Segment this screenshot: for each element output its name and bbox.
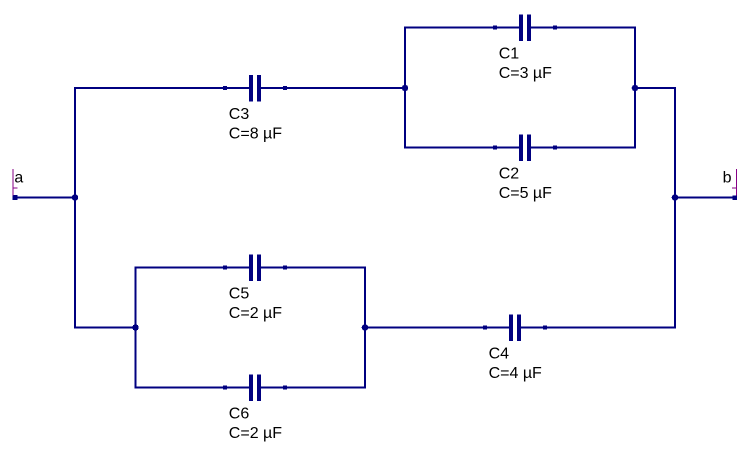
svg-text:C=5 µF: C=5 µF	[499, 185, 552, 202]
svg-text:C=2 µF: C=2 µF	[229, 425, 282, 442]
svg-text:C1: C1	[499, 46, 520, 63]
svg-text:C4: C4	[489, 346, 510, 363]
svg-text:a: a	[14, 170, 23, 187]
svg-text:C2: C2	[499, 166, 520, 183]
svg-text:b: b	[723, 170, 732, 187]
svg-text:C3: C3	[229, 106, 250, 123]
svg-text:C=8 µF: C=8 µF	[229, 126, 282, 143]
svg-text:C=3 µF: C=3 µF	[499, 65, 552, 82]
svg-text:C5: C5	[229, 286, 250, 303]
svg-text:C=4 µF: C=4 µF	[489, 365, 542, 382]
svg-text:C6: C6	[229, 406, 250, 423]
svg-text:C=2 µF: C=2 µF	[229, 305, 282, 322]
